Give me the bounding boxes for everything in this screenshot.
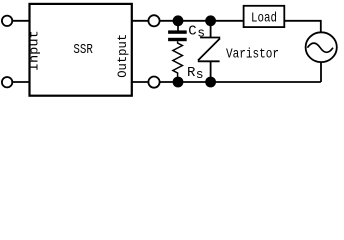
- wire box to top-right terminal: [132, 20, 149, 22]
- svg-text:SSR: SSR: [73, 42, 93, 58]
- wire bottom rail: [159, 81, 320, 83]
- svg-text:Varistor: Varistor: [226, 47, 279, 63]
- label Cs: [188, 24, 205, 41]
- label Rs: [187, 65, 204, 82]
- wire top-left: [12, 20, 29, 22]
- varistor: [198, 21, 220, 82]
- wire load to AC source: [284, 21, 321, 33]
- SSR box: [30, 4, 132, 96]
- wire AC source to bottom rail: [320, 62, 322, 82]
- node junction top B: [205, 15, 216, 26]
- wire top rail: [159, 20, 243, 22]
- svg-text:R: R: [187, 65, 196, 81]
- node junction top A: [173, 15, 184, 26]
- wire box to bottom-right terminal: [132, 81, 149, 83]
- terminal top-right: [148, 15, 159, 26]
- node junction bottom B: [205, 77, 216, 88]
- node junction bottom A: [173, 77, 184, 88]
- resistor Rs: [173, 41, 183, 78]
- svg-text:s: s: [197, 25, 205, 40]
- svg-text:Input: Input: [26, 30, 41, 71]
- terminal bottom-left: [2, 77, 12, 87]
- svg-text:Output: Output: [115, 34, 130, 78]
- terminal top-left: [2, 16, 12, 26]
- svg-text:s: s: [196, 67, 204, 82]
- wire bottom-left: [12, 81, 29, 83]
- svg-text:C: C: [188, 24, 196, 40]
- capacitor Cs: [168, 21, 187, 41]
- AC source: [306, 32, 337, 62]
- svg-text:Load: Load: [251, 11, 277, 27]
- Load box: [244, 6, 285, 27]
- terminal bottom-right: [148, 77, 159, 88]
